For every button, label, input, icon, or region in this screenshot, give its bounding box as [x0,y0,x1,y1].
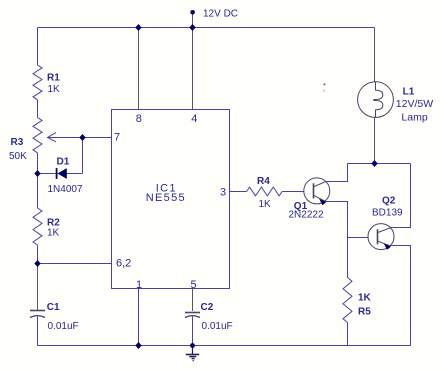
svg-text:C1: C1 [47,302,60,313]
wire pin 5 to C2 [192,289,194,312]
wire Q2 emitter to bottom rail [390,246,411,346]
wire pin 1 to ground rail [138,289,140,346]
wire Q2 base junction down to R5 [347,238,349,278]
svg-text:1K: 1K [358,293,372,304]
svg-text:C2: C2 [201,302,214,313]
transistor Q1 emitter arrow [319,199,326,205]
svg-text:7: 7 [114,131,120,143]
ground [186,346,199,361]
svg-text:R4: R4 [257,176,270,187]
svg-text:1K: 1K [47,227,60,238]
wire pin 7 to wiper [48,137,112,139]
lamp L1 [358,82,394,118]
svg-text:L1: L1 [403,86,415,97]
transistor Q2 [368,224,394,250]
wire C2 to ground rail [192,316,194,345]
svg-text:8: 8 [136,113,142,125]
resistor R4 [247,187,283,196]
svg-text:5: 5 [191,279,197,291]
wire R4 to Q1 base [282,191,304,193]
wire node 6,2 to C1 [37,264,39,311]
svg-text:12V/5W: 12V/5W [396,98,433,110]
wire Q2 base stub [348,237,369,239]
wire R1 to R3 [37,100,39,118]
svg-text:R5: R5 [358,306,371,317]
node junction lamp/collector rail [371,160,377,167]
resistor R2 [33,208,42,245]
node junction D1 cathode/left wire [34,170,40,177]
svg-text:NE555: NE555 [146,192,186,204]
wire C1 to bottom rail [37,316,39,345]
svg-text:50K: 50K [9,151,27,162]
node junction 12V/top rail [189,24,195,31]
svg-text:R1: R1 [47,72,60,83]
wire right vertical to Q2 collector [391,164,411,228]
svg-text:Q2: Q2 [382,196,396,207]
node ground junction [190,343,195,348]
wire lamp to junction [374,118,376,164]
wire 12V terminal to pin 4 [192,14,194,110]
node 12V terminal [190,10,195,15]
svg-text:1K: 1K [259,199,272,210]
wire R5 to bottom rail [347,323,349,346]
wire D1 anode [67,173,83,175]
resistor R5 [343,278,352,323]
transistor Q1 [304,178,330,204]
wire R3 to R2 [37,153,39,208]
wire pin 8 vertical [138,28,140,110]
speck [323,83,325,85]
node junction pin1/ground rail [135,342,141,349]
potentiometer R3 [33,118,42,153]
svg-text:D1: D1 [57,156,70,167]
op-amp U1 IC1 NE555 box [112,110,230,289]
svg-text:12V DC: 12V DC [203,9,238,20]
wire D1 cathode [38,173,56,175]
potentiometer R3 wiper arrow [48,133,57,142]
wire collector link rail [348,163,411,165]
wire left vertical (top rail to R1) [37,28,39,66]
svg-text:6,2: 6,2 [116,257,131,269]
svg-text:BD139: BD139 [372,207,403,218]
diode D1 [56,168,67,179]
transistor Q2 emitter arrow [384,243,391,249]
svg-text:4: 4 [191,113,197,125]
wire bottom ground rail [38,345,411,347]
capacitor C1 [30,311,45,318]
wire pin 6,2 [38,263,112,265]
svg-text:2N2222: 2N2222 [289,210,324,221]
svg-text:1K: 1K [48,84,61,95]
svg-text:0.01uF: 0.01uF [48,321,79,332]
svg-text:1: 1 [136,279,142,291]
svg-text:3: 3 [220,187,226,199]
speck [323,90,325,92]
svg-text:0.01uF: 0.01uF [202,321,233,332]
wire top supply rail [38,27,375,29]
svg-text:R3: R3 [11,137,24,148]
wire pin 3 to R4 [230,191,247,193]
resistor R1 [33,65,42,100]
wire Q1 collector [326,164,348,182]
wire R2 to node 6,2 [37,245,39,264]
svg-text:Lamp: Lamp [401,112,427,124]
wire Q1 emitter to Q2 base [325,202,368,238]
node junction 6,2/left wire [34,260,40,267]
node junction pin8/top rail [135,24,141,31]
svg-text:1N4007: 1N4007 [48,184,83,195]
wire lamp branch vertical top [374,28,376,82]
capacitor C2 [185,313,200,318]
node junction wiper/D1 [79,134,85,141]
wire D1 branch vertical [82,138,84,174]
